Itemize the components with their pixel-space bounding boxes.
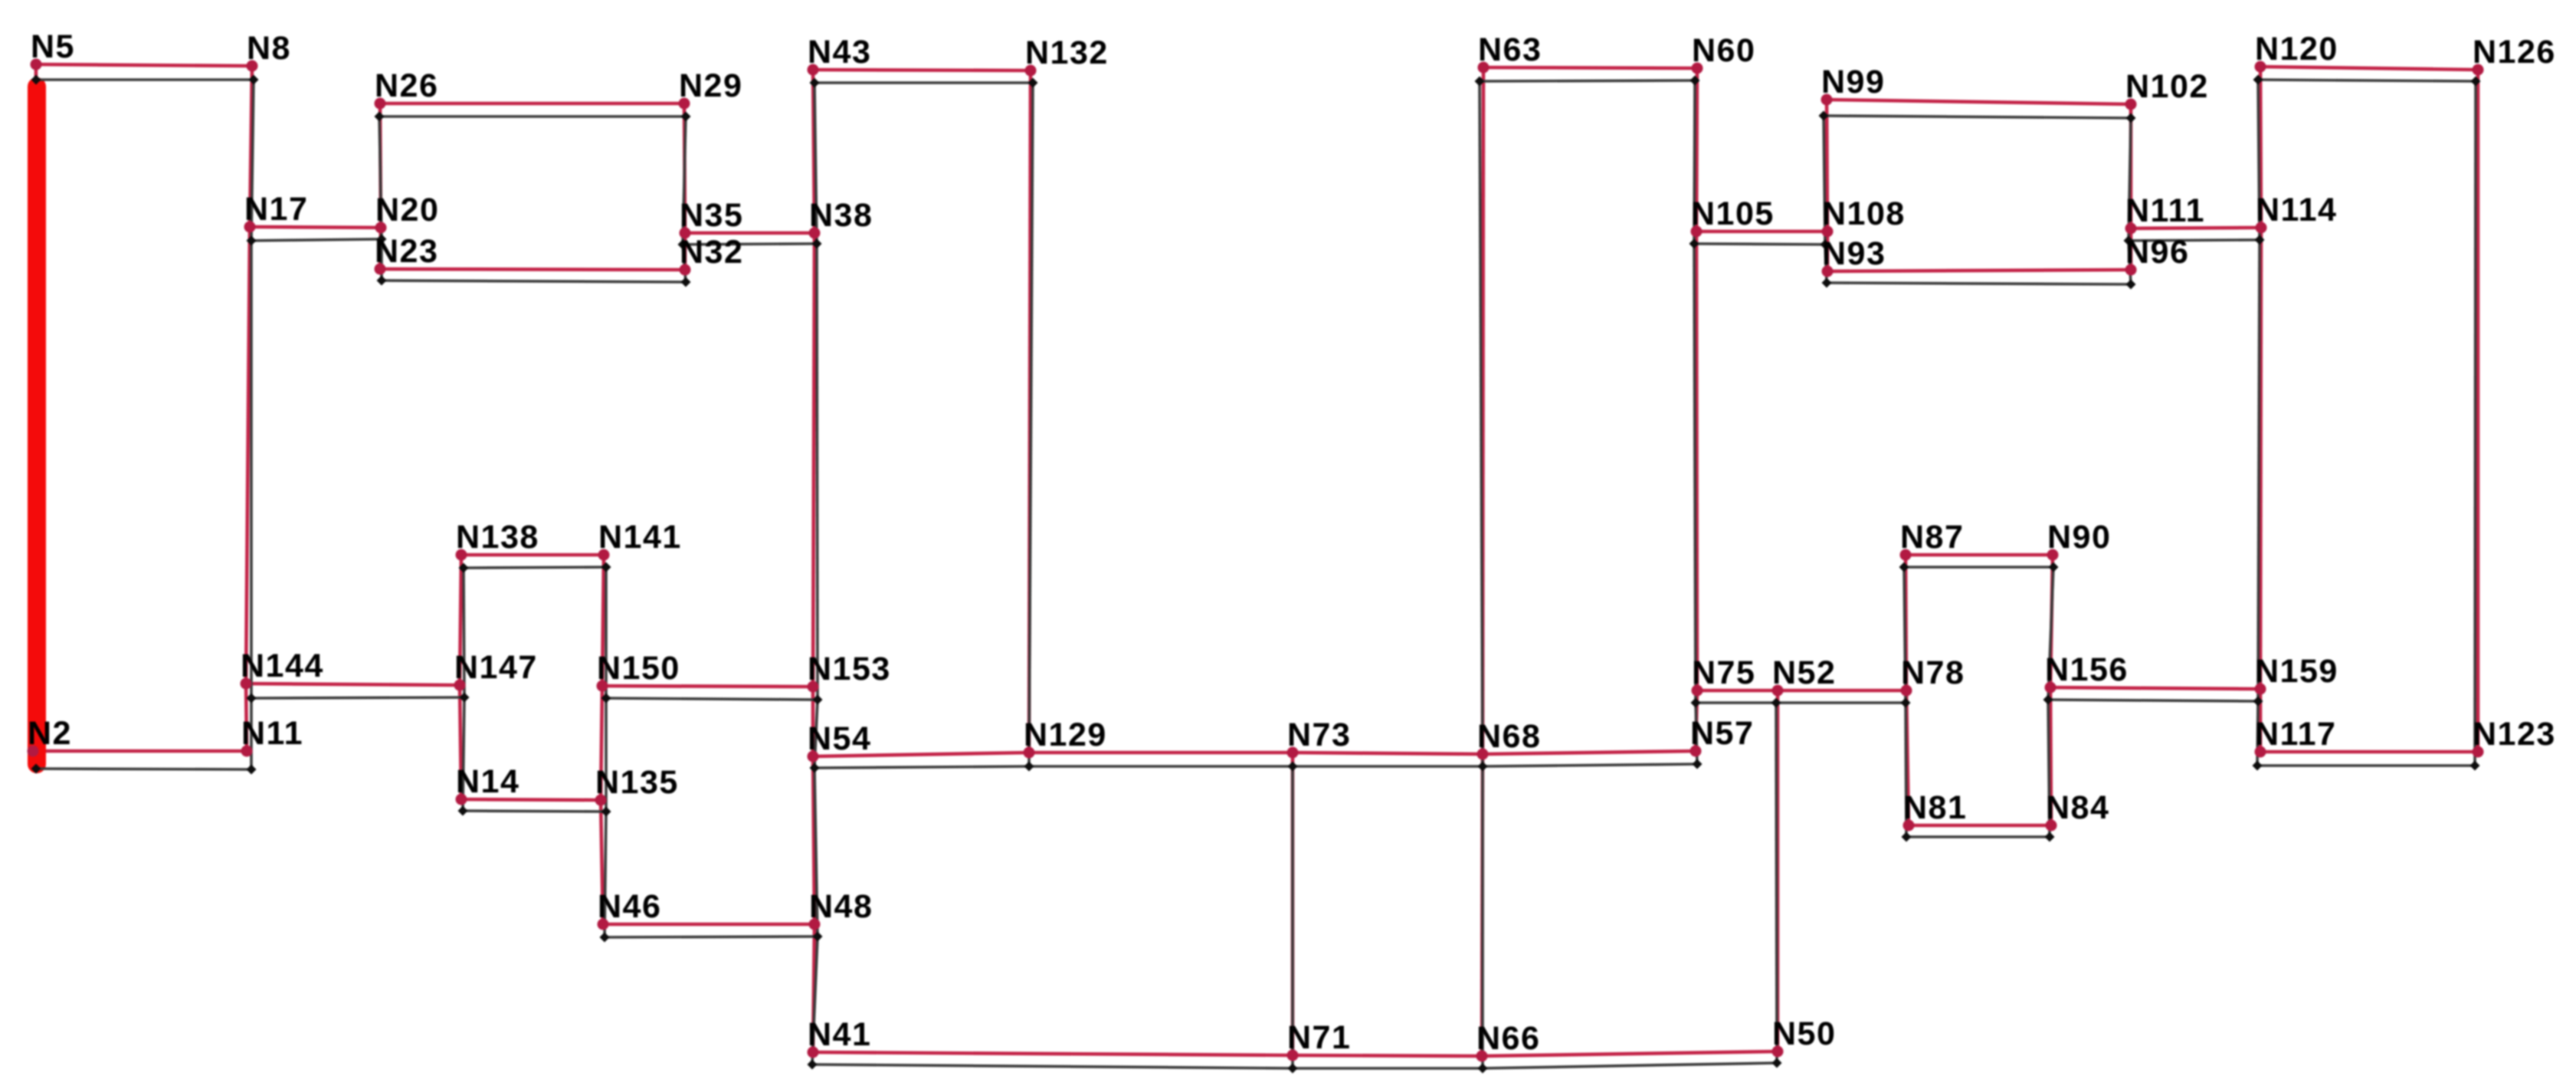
- wire crimson edge N17-N144: [246, 227, 250, 684]
- svg-text:N11: N11: [241, 715, 303, 752]
- wire crimson edge N99-N108: [1827, 100, 1827, 231]
- wire crimson edge N120-N126: [2260, 67, 2478, 70]
- wire black edge N63-N60: [1480, 80, 1695, 81]
- wire crimson edge N108-N93: [1826, 231, 1830, 271]
- svg-text:N20: N20: [375, 192, 439, 228]
- node N75: [1692, 685, 1703, 697]
- wire black edge N141-N150: [605, 567, 608, 698]
- node N117: [2255, 746, 2266, 758]
- node N63: [1478, 62, 1490, 74]
- wire black edge N138-N147: [464, 568, 464, 697]
- node N153: [808, 681, 819, 693]
- wire black edge N90-N156: [2048, 567, 2053, 700]
- svg-text:N26: N26: [375, 67, 438, 104]
- wire black edge N108-N93: [1825, 244, 1827, 283]
- wire crimson edge N43-N132: [813, 70, 1031, 71]
- wire crimson edge N87-N90: [1906, 553, 2053, 557]
- wire black edge N105-N75: [1694, 244, 1696, 703]
- wire black edge N111-N96: [2129, 241, 2131, 284]
- wire black edge N75-N52: [1696, 701, 1776, 704]
- svg-text:N5: N5: [31, 28, 75, 65]
- node N38: [809, 228, 821, 239]
- node N68: [1477, 749, 1489, 760]
- node N2: [28, 746, 39, 757]
- node N23: [375, 264, 386, 275]
- svg-text:N84: N84: [2046, 789, 2109, 826]
- node N150: [597, 681, 608, 692]
- wire black edge N81-N84: [1906, 835, 2050, 838]
- wire black edge N23-N32: [382, 280, 686, 282]
- wire black edge N73-N68: [1293, 765, 1483, 768]
- wire crimson edge N38-N153: [813, 233, 814, 687]
- svg-text:N123: N123: [2473, 716, 2556, 753]
- svg-text:N111: N111: [2125, 192, 2205, 229]
- wire crimson edge N105-N108: [1696, 230, 1827, 234]
- node N90: [2047, 549, 2059, 561]
- wire black edge N150-N135: [605, 698, 608, 812]
- svg-text:N63: N63: [1478, 31, 1542, 68]
- wire black edge N87-N78: [1904, 567, 1906, 703]
- wire crimson edge N35-N38: [685, 231, 814, 235]
- wire black edge N120-N126: [2258, 80, 2476, 81]
- wire crimson edge N35-N32: [683, 233, 687, 270]
- node N141: [598, 549, 610, 561]
- wire black edge N52-N50: [1776, 703, 1777, 1063]
- wire crimson edge N159-N156: [2050, 687, 2260, 689]
- wire black edge N159-N156: [2048, 700, 2258, 701]
- wire black edge N144-N11: [250, 698, 253, 769]
- wire black edge N63-N68: [1480, 81, 1483, 766]
- node N108: [1822, 226, 1834, 238]
- svg-text:N99: N99: [1821, 64, 1885, 100]
- node N102: [2125, 99, 2137, 110]
- node N87: [1900, 549, 1912, 561]
- node N114: [2256, 222, 2267, 234]
- svg-text:N159: N159: [2255, 653, 2338, 690]
- wire crimson edge N8-N17: [250, 66, 252, 227]
- node N135: [595, 795, 607, 806]
- svg-text:N153: N153: [808, 651, 891, 687]
- wire crimson edge N41-N71: [813, 1052, 1293, 1055]
- svg-text:N35: N35: [680, 197, 743, 234]
- wire black edge N17-N144: [250, 241, 253, 698]
- node N5: [31, 59, 42, 71]
- node N35: [680, 228, 691, 239]
- wire crimson edge N111-N96: [2129, 228, 2133, 270]
- node N144: [241, 678, 252, 690]
- wire black edge N78-N81: [1906, 703, 1906, 837]
- wire crimson edge N153-N54: [811, 687, 815, 756]
- node N54: [808, 751, 819, 763]
- svg-text:N108: N108: [1822, 195, 1906, 232]
- wire crimson edge N144-N147: [246, 684, 460, 685]
- svg-text:N17: N17: [244, 191, 308, 228]
- wire crimson edge N135-N46: [601, 800, 603, 924]
- svg-text:N68: N68: [1477, 718, 1541, 755]
- wire black edge N17-N20: [251, 239, 382, 241]
- svg-text:N66: N66: [1476, 1020, 1540, 1057]
- wire black edge N38-N153: [817, 244, 818, 700]
- svg-text:N156: N156: [2045, 651, 2129, 688]
- node N126: [2473, 64, 2484, 76]
- wire crimson edge N5-N2: [33, 64, 36, 751]
- wire black edge N99-N102: [1824, 116, 2131, 118]
- wire crimson edge N78-N81: [1906, 690, 1909, 825]
- svg-text:N138: N138: [456, 519, 539, 556]
- wire crimson edge N66-N50: [1482, 1051, 1778, 1056]
- wire black edge N129-N73: [1029, 765, 1293, 768]
- node N29: [679, 98, 690, 110]
- wire black edge N14-N135: [463, 811, 606, 812]
- wire crimson edge N117-N123: [2260, 750, 2478, 754]
- wire crimson edge N52-N78: [1778, 689, 1906, 693]
- wire crimson edge N75-N57: [1696, 690, 1697, 751]
- node N78: [1901, 685, 1912, 697]
- wire black edge N29-N35: [683, 116, 686, 244]
- wire crimson edge N132-N129: [1029, 71, 1031, 753]
- node N43: [808, 64, 819, 76]
- wire crimson edge N73-N71: [1291, 753, 1295, 1055]
- wire black edge N68-N66: [1481, 766, 1484, 1068]
- wire black edge N48-N46: [605, 936, 818, 937]
- wire black edge N120-N114: [2258, 80, 2260, 240]
- wire crimson edge N129-N73: [1029, 751, 1293, 755]
- wire black edge N43-N132: [814, 81, 1033, 84]
- wire crimson edge N54-N129: [813, 753, 1029, 756]
- wire black edge N105-N108: [1694, 244, 1825, 244]
- node N17: [244, 221, 256, 233]
- svg-text:N41: N41: [808, 1016, 871, 1053]
- wire crimson edge N105-N75: [1696, 231, 1697, 690]
- wire crimson edge N93-N96: [1827, 270, 2131, 271]
- svg-text:N54: N54: [808, 720, 871, 757]
- svg-text:N132: N132: [1025, 34, 1109, 71]
- node N111: [2125, 223, 2137, 235]
- node N71: [1287, 1050, 1299, 1061]
- wire crimson edge N114-N159: [2260, 228, 2261, 689]
- node N8: [247, 61, 258, 72]
- wire crimson edge N48-N41: [813, 924, 814, 1052]
- svg-text:N93: N93: [1822, 235, 1886, 272]
- wire black edge N66-N50: [1483, 1063, 1777, 1068]
- wire crimson edge N150-N135: [601, 686, 602, 800]
- node N99: [1821, 94, 1833, 106]
- wire black edge N54-N129: [814, 766, 1029, 768]
- wire crimson edge N54-N48: [813, 756, 814, 924]
- wire crimson edge N68-N57: [1483, 751, 1696, 754]
- svg-text:N102: N102: [2125, 68, 2209, 105]
- svg-text:N117: N117: [2255, 716, 2336, 753]
- svg-text:N57: N57: [1690, 715, 1754, 752]
- node N96: [2125, 264, 2137, 276]
- wire crimson edge N87-N78: [1906, 555, 1906, 690]
- wire crimson edge N138-N141: [461, 553, 604, 557]
- svg-text:N60: N60: [1692, 32, 1755, 69]
- wire crimson edge N120-N114: [2260, 67, 2261, 228]
- wire black edge N156-N84: [2048, 700, 2050, 837]
- svg-text:N48: N48: [809, 888, 873, 925]
- svg-text:N23: N23: [375, 233, 438, 270]
- node N11: [241, 746, 253, 757]
- wire crimson edge N68-N66: [1482, 754, 1483, 1056]
- wire crimson edge N156-N84: [2050, 687, 2051, 825]
- node N147: [454, 680, 466, 691]
- node N123: [2473, 746, 2484, 758]
- svg-text:N2: N2: [28, 715, 72, 752]
- node N32: [680, 264, 691, 276]
- svg-text:N38: N38: [809, 197, 873, 234]
- node N20: [375, 222, 387, 234]
- svg-text:N90: N90: [2047, 519, 2111, 556]
- node N41: [808, 1047, 819, 1058]
- svg-text:N29: N29: [679, 67, 742, 104]
- wire crimson edge N159-N117: [2259, 689, 2263, 752]
- wire black edge N135-N46: [605, 812, 606, 937]
- wire crimson edge N73-N68: [1293, 753, 1483, 754]
- wire black edge N126-N123: [2475, 81, 2476, 766]
- node N26: [375, 98, 386, 110]
- wire black edge N71-N66: [1293, 1067, 1483, 1070]
- wire black edge N68-N57: [1483, 764, 1697, 766]
- wire crimson edge N26-N20: [380, 103, 381, 228]
- wire black edge N52-N78: [1776, 701, 1906, 704]
- node N138: [456, 549, 467, 561]
- wire black edge N5-N8: [36, 78, 254, 81]
- wire crimson edge N63-N60: [1483, 67, 1697, 68]
- svg-text:N129: N129: [1024, 717, 1107, 753]
- svg-text:N14: N14: [456, 763, 519, 800]
- wire crimson edge N26-N29: [380, 102, 684, 106]
- wire crimson edge N17-N20: [250, 227, 381, 228]
- wire black edge N159-N117: [2257, 701, 2258, 766]
- wire crimson edge N147-N14: [460, 685, 461, 799]
- wire black edge N102-N111: [2129, 118, 2131, 241]
- node N66: [1476, 1051, 1488, 1062]
- wire black edge N2-N11: [36, 769, 251, 769]
- wire black edge N41-N71: [812, 1064, 1293, 1068]
- wire black edge N48-N41: [812, 936, 818, 1064]
- wire black edge N147-N14: [463, 697, 464, 811]
- svg-text:N147: N147: [454, 649, 538, 686]
- node N52: [1772, 685, 1784, 697]
- node N120: [2255, 61, 2266, 73]
- wire black edge N8-N17: [251, 80, 254, 241]
- node N46: [598, 919, 609, 930]
- wire crimson edge N5-N8: [36, 64, 252, 66]
- wire black edge N35-N38: [683, 244, 817, 244]
- svg-text:N114: N114: [2256, 192, 2337, 228]
- svg-text:N75: N75: [1692, 654, 1755, 691]
- svg-text:N8: N8: [247, 30, 291, 67]
- node N105: [1691, 226, 1703, 238]
- svg-text:N43: N43: [808, 34, 871, 71]
- wire crimson edge N2-N11: [33, 750, 247, 753]
- wire black edge N111-N114: [2129, 240, 2260, 241]
- wire black edge N26-N29: [379, 115, 686, 118]
- wire black edge N75-N57: [1696, 703, 1697, 764]
- node N73: [1287, 747, 1299, 759]
- svg-text:N52: N52: [1772, 654, 1836, 691]
- wire crimson edge N102-N111: [2129, 104, 2133, 228]
- wire crimson edge N38-N43: [813, 70, 814, 233]
- node N159: [2255, 684, 2266, 695]
- svg-text:N150: N150: [597, 650, 680, 687]
- wire black edge N153-N54: [814, 700, 818, 768]
- wire black edge N38-N43: [814, 83, 817, 244]
- wire crimson edge N153-N150: [602, 686, 813, 687]
- wire crimson edge N90-N156: [2050, 555, 2053, 687]
- wire crimson edge N75-N52: [1697, 689, 1778, 693]
- node N48: [809, 919, 821, 930]
- svg-text:N144: N144: [241, 648, 324, 684]
- svg-text:N120: N120: [2255, 31, 2338, 67]
- wire crimson edge N63-N68: [1483, 67, 1483, 754]
- wire black edge N138-N141: [464, 567, 606, 568]
- svg-text:N71: N71: [1287, 1019, 1351, 1056]
- wire black edge N93-N96: [1827, 283, 2131, 284]
- svg-text:N96: N96: [2125, 234, 2189, 271]
- node N93: [1822, 266, 1834, 277]
- wire black edge N35-N32: [683, 244, 686, 282]
- node N57: [1690, 746, 1702, 757]
- wire black edge N87-N90: [1904, 566, 2053, 569]
- wire black edge N26-N20: [379, 116, 382, 239]
- node N132: [1025, 65, 1037, 77]
- svg-text:N81: N81: [1903, 789, 1967, 826]
- wire crimson edge N144-N11: [246, 684, 247, 751]
- wire black edge N144-N147: [251, 697, 464, 698]
- wire highlighted edge N5-N2 (thick red): [28, 87, 46, 764]
- wire black edge N73-N71: [1291, 766, 1294, 1068]
- svg-text:N32: N32: [680, 234, 743, 271]
- wire crimson edge N48-N46: [603, 923, 814, 927]
- svg-text:N126: N126: [2473, 34, 2556, 71]
- wire crimson edge N20-N23: [380, 228, 381, 269]
- svg-text:N46: N46: [598, 888, 661, 925]
- wire black edge N132-N129: [1029, 83, 1033, 766]
- wire crimson edge N14-N135: [461, 799, 601, 800]
- wire black edge N99-N108: [1824, 116, 1825, 244]
- node N84: [2046, 820, 2057, 832]
- node N50: [1772, 1046, 1784, 1058]
- svg-text:N141: N141: [598, 519, 682, 556]
- svg-text:N73: N73: [1287, 717, 1351, 753]
- wire crimson edge N60-N105: [1696, 68, 1697, 231]
- wire crimson edge N111-N114: [2131, 228, 2261, 228]
- svg-text:N105: N105: [1691, 195, 1775, 232]
- wire black edge N153-N150: [606, 698, 818, 700]
- wire black edge N117-N123: [2257, 764, 2475, 767]
- svg-text:N87: N87: [1900, 519, 1964, 556]
- svg-text:N78: N78: [1901, 654, 1965, 691]
- wire black edge N20-N23: [380, 239, 383, 280]
- wire black edge N114-N159: [2258, 240, 2260, 701]
- wire crimson edge N141-N150: [602, 555, 604, 686]
- wire crimson edge N126-N123: [2476, 70, 2480, 752]
- node N156: [2045, 682, 2057, 694]
- node N14: [456, 794, 467, 805]
- wire crimson edge N99-N102: [1827, 100, 2131, 104]
- svg-text:N50: N50: [1772, 1015, 1836, 1052]
- wire black edge N60-N105: [1694, 80, 1695, 244]
- node N129: [1024, 747, 1035, 759]
- wire crimson edge N138-N147: [460, 555, 461, 685]
- wire crimson edge N81-N84: [1909, 824, 2051, 828]
- node N60: [1692, 63, 1703, 74]
- wire crimson edge N52-N50: [1776, 690, 1780, 1051]
- wire black edge N54-N48: [814, 768, 818, 936]
- wire crimson edge N71-N66: [1293, 1055, 1482, 1056]
- wire crimson edge N23-N32: [380, 269, 685, 270]
- node N81: [1903, 820, 1915, 832]
- svg-text:N135: N135: [595, 764, 679, 801]
- wire crimson edge N29-N35: [684, 103, 685, 233]
